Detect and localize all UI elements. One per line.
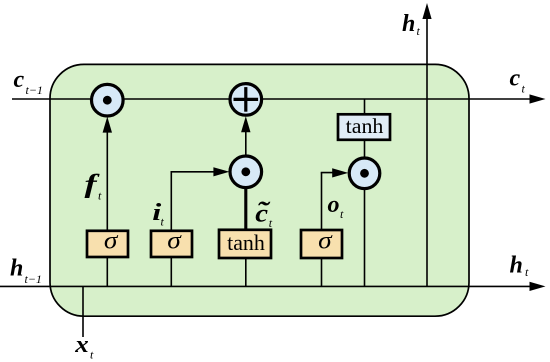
wire c (cell state) horizontal	[12, 94, 546, 103]
sigma box f gate	[87, 228, 128, 257]
svg-text:t−1: t−1	[25, 272, 42, 286]
wire o gate vertical and horizontal with arrow into multiply3	[321, 168, 349, 286]
svg-text:c: c	[510, 66, 521, 92]
wire i gate vertical and horizontal with arrow into multiply	[171, 167, 230, 286]
svg-text:t: t	[522, 81, 526, 95]
sigma box i gate	[151, 228, 192, 257]
add node	[230, 84, 262, 116]
multiply node output gate	[349, 158, 380, 189]
svg-text:h: h	[510, 252, 523, 278]
tanh box output	[338, 114, 390, 140]
multiply node forget gate	[92, 84, 124, 116]
svg-text:t: t	[90, 348, 94, 362]
multiply node input gate	[230, 156, 262, 188]
wire c-tilde bold from tanh box to multiply	[245, 189, 247, 286]
svg-text:t−1: t−1	[26, 83, 43, 97]
tanh box candidate gate	[219, 230, 271, 258]
wire h (hidden state) horizontal	[0, 282, 546, 291]
label i_t	[152, 200, 164, 229]
svg-text:x: x	[74, 330, 89, 357]
wire tanh branch from c line down to output multiply	[364, 99, 366, 286]
svg-text:h: h	[10, 256, 23, 282]
label x_t	[74, 330, 94, 361]
svg-text:σ: σ	[167, 228, 182, 255]
label o_t	[328, 192, 345, 221]
svg-text:c: c	[14, 67, 25, 93]
wire h_t vertical output	[422, 3, 431, 286]
svg-text:σ: σ	[104, 228, 119, 255]
svg-text:t: t	[525, 265, 529, 279]
label c-tilde_t	[255, 197, 273, 231]
sigma box o gate	[301, 228, 342, 258]
label f_t	[85, 170, 103, 203]
svg-text:h: h	[402, 11, 415, 37]
wire multiply2 to add with arrow	[241, 116, 250, 155]
svg-text:tanh: tanh	[227, 230, 265, 255]
label h_{t-1}	[10, 256, 42, 287]
label c_t right	[510, 66, 526, 96]
label c_{t-1}	[14, 67, 43, 97]
wire x_t vertical input	[82, 286, 84, 337]
LSTM cell body	[50, 64, 469, 316]
svg-text:σ: σ	[318, 228, 333, 255]
label h_t right	[510, 252, 530, 279]
wire f gate vertical with arrow into multiply	[103, 117, 112, 287]
svg-text:tanh: tanh	[346, 114, 384, 138]
label h_t top	[402, 11, 421, 38]
svg-text:t: t	[417, 24, 421, 38]
svg-text:o: o	[328, 192, 340, 218]
